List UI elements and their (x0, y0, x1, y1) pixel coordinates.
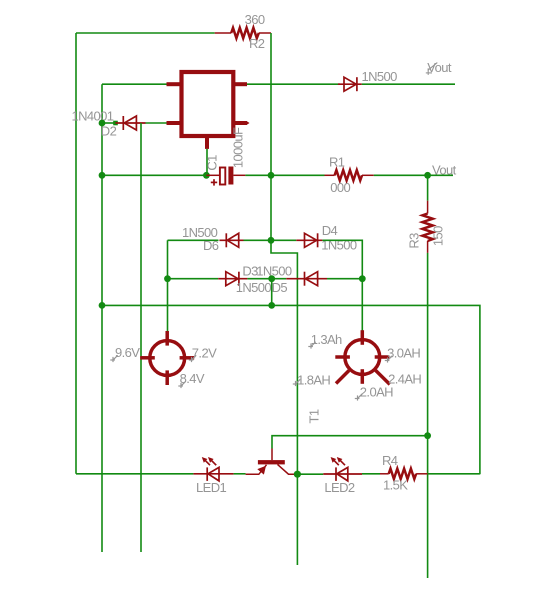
junction at (427.6,435.7) (424, 432, 431, 439)
svg-text:LED1: LED1 (196, 480, 226, 495)
diode D3 (218, 272, 247, 286)
svg-text:2.0AH: 2.0AH (360, 385, 393, 400)
svg-text:R2: R2 (249, 36, 265, 51)
xref arrow Vout top (426, 63, 438, 75)
svg-text:D6: D6 (203, 238, 219, 253)
wire C1 to R1 (245, 174, 324, 176)
xref arrow 9.6V (110, 355, 117, 362)
wire junction down to bus (271, 279, 273, 306)
wire U1 output y=84.2 to Vout arrow (247, 83, 340, 85)
svg-text:C1: C1 (204, 155, 219, 171)
svg-text:9.6V: 9.6V (115, 345, 140, 360)
lamp selector S2 (capacity) (335, 330, 390, 384)
junction at (102,123) (99, 120, 106, 127)
wire U1 bottom pin to C1 junction (205, 149, 208, 175)
junction at (271,240.3) (268, 237, 275, 244)
wire top bus y=33 from left column to R2 (76, 32, 215, 34)
xref arrow 7.2V (189, 355, 196, 362)
wire LED1 to T1 emitter (234, 473, 246, 475)
pin U1 upper-left (167, 82, 182, 86)
junction at (271,175.3) (268, 172, 275, 179)
wire D6 to junction (244, 239, 297, 241)
wire column x=167.5 from D6 row to lamp (167, 240, 169, 331)
pin U1 lower-left (167, 121, 182, 125)
junction at (102,175.3) (99, 172, 106, 179)
wire column x=102 (101, 84, 103, 552)
svg-text:1.5K: 1.5K (383, 478, 408, 493)
resistor R4 (380, 469, 428, 479)
junction at (167.5,278.7) (164, 275, 171, 282)
svg-text:1N500: 1N500 (362, 69, 398, 84)
svg-text:1.3Ah: 1.3Ah (311, 332, 342, 347)
wire column x=141 from D2 row down (140, 123, 142, 552)
svg-text:3.0AH: 3.0AH (387, 345, 420, 360)
wire Vout node down to R3 (427, 175, 429, 200)
resistor R2 (215, 28, 271, 38)
wire D2 row (102, 122, 116, 124)
svg-text:2.4AH: 2.4AH (388, 371, 421, 386)
wire D4 to corner down (322, 240, 362, 331)
LED LED2 (323, 460, 362, 481)
lamp selector S1 (voltage) (140, 331, 194, 385)
resistor R3 vertical (422, 201, 432, 253)
wire D6 row y=240.3 (168, 239, 219, 241)
svg-text:Vout: Vout (432, 163, 457, 178)
svg-text:R1: R1 (329, 155, 345, 170)
resistor R1 (325, 170, 374, 180)
svg-text:R4: R4 (382, 453, 398, 468)
diode D1 1N500 top (338, 77, 362, 91)
junction at (206.4,175.3) (203, 172, 210, 179)
transistor T1 (246, 449, 295, 475)
capacitor C1 (206, 167, 245, 186)
wire D3 row y=278.7 (168, 278, 219, 280)
wire R3 bottom down column x=427.6 (427, 253, 429, 578)
junction square at (115.5,123) (113, 121, 118, 126)
xref arrow 1.3Ah (308, 342, 315, 349)
wire bus row y=305.4 (102, 305, 480, 474)
junction at (271.7,278.7) (268, 275, 275, 282)
wire LED2 to R4 (362, 473, 380, 475)
wire staircase from D6 junction (271, 240, 297, 565)
op-amp regulator U1 box (182, 72, 234, 136)
wire T1 base up and right to R3 column (272, 436, 428, 449)
diode D6 (219, 233, 243, 247)
diode D4 (296, 233, 322, 247)
wire left column x=76 (75, 33, 77, 474)
svg-text:D5: D5 (272, 280, 288, 295)
svg-text:150: 150 (431, 226, 446, 246)
wire D2 anode to U1 lower-left pin (146, 122, 167, 124)
LED2 arrowheads (331, 457, 337, 463)
wire C1 row y=175.3 left part (102, 174, 206, 176)
svg-text:1N4001: 1N4001 (72, 108, 114, 123)
pin U1 bottom (205, 136, 209, 149)
wire column x=271 from R2 corner down to D6 row (270, 33, 272, 240)
wire D3 to D5 (247, 278, 286, 280)
svg-text:LED2: LED2 (324, 480, 354, 495)
wire R4 node to right column corner (428, 473, 480, 475)
wire collector node to LED2 (294, 473, 323, 475)
svg-text:1.8AH: 1.8AH (297, 372, 330, 387)
junction at (102,305.4) (99, 302, 106, 309)
junction at (271.7,305.4) (268, 302, 275, 309)
xref arrow 8.4V (178, 381, 185, 388)
svg-text:1N500: 1N500 (236, 280, 272, 295)
junction at T1 collector (297.4,474.2) (294, 471, 301, 478)
svg-text:D4: D4 (322, 223, 338, 238)
xref arrow 2.0AH (355, 394, 362, 401)
wire IC upper-left pin wire y=84.2 (102, 83, 167, 85)
svg-text:360: 360 (245, 12, 265, 27)
wire LED1 row from left column (76, 473, 193, 475)
svg-text:1N500: 1N500 (256, 263, 292, 278)
T1 emitter arrow (PNP) (257, 466, 266, 475)
LED LED1 (193, 460, 233, 481)
junction node Vout (427.6,175.3) (424, 172, 431, 179)
svg-text:T1: T1 (307, 409, 322, 423)
svg-text:000: 000 (330, 180, 350, 195)
svg-text:7.2V: 7.2V (192, 346, 217, 361)
wire D5 to corner column (327, 278, 362, 280)
junction at (362.3,278.7) (359, 275, 366, 282)
diode D5 (286, 272, 327, 286)
diode D2 (116, 116, 146, 130)
pin U1 lower-right (233, 121, 247, 125)
xref arrow 3.0AH (385, 356, 392, 363)
LED1 arrowheads (202, 457, 208, 463)
svg-text:1000uF: 1000uF (230, 127, 245, 168)
svg-text:R3: R3 (406, 233, 421, 249)
wire R1 to Vout node (374, 174, 453, 176)
pin U1 upper-right (233, 82, 247, 86)
xref arrow 1.8AH (293, 379, 300, 386)
wire diode to Vout end (362, 83, 455, 85)
